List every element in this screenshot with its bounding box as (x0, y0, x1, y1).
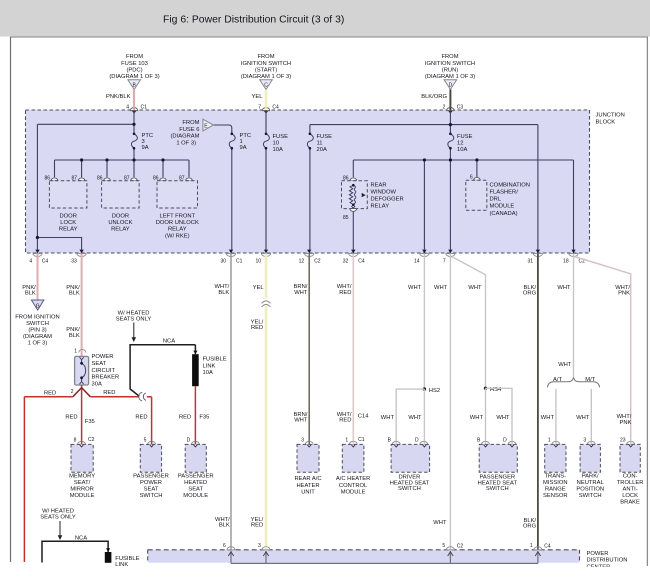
node: bus tap at PNK input (132, 123, 135, 126)
wire RED breaker output junction (24, 385, 151, 562)
wire WHT/PNK diagonal from pin18 to controller anti-lock brake (575, 257, 631, 442)
svg-text:WHT: WHT (408, 415, 422, 421)
svg-text:DEFOGGER: DEFOGGER (371, 197, 404, 203)
module boxes (bottom row) (71, 444, 640, 472)
svg-text:FROM IGNITION: FROM IGNITION (15, 315, 59, 321)
svg-text:SWITCH: SWITCH (398, 486, 421, 492)
svg-text:SWITCH: SWITCH (140, 493, 163, 499)
power distribution center interior wires (231, 551, 538, 563)
svg-text:RED: RED (135, 415, 147, 421)
connector C4 pin 7 (258, 105, 279, 114)
wire WHT/BLK pin30 to power distribution center (230, 254, 232, 550)
svg-text:REAR: REAR (371, 182, 387, 188)
svg-text:(CANADA): (CANADA) (490, 211, 518, 217)
wire: FUSE10 out to pin 10 (265, 148, 267, 249)
label: rear A/C heater unit (294, 476, 321, 495)
wire: drop to pin 14 (423, 160, 425, 250)
wire PNK/BLK pin4 to triangle G (37, 254, 39, 300)
splice HS4 (484, 387, 487, 390)
svg-text:C1: C1 (141, 105, 148, 111)
svg-text:WHT: WHT (470, 415, 484, 421)
svg-text:IGNITION SWITCH: IGNITION SWITCH (425, 61, 475, 67)
svg-text:FUSE: FUSE (317, 134, 333, 140)
svg-text:MODULE: MODULE (183, 493, 208, 499)
svg-text:(DIAGRAM 1 OF 3): (DIAGRAM 1 OF 3) (425, 74, 475, 80)
svg-text:RED: RED (179, 415, 191, 421)
svg-text:IGNITION SWITCH: IGNITION SWITCH (241, 61, 291, 67)
svg-text:C: C (264, 83, 268, 89)
node D label: FROM IGNITION SWITCH (RUN) (425, 54, 475, 80)
label: transmission range sensor (543, 473, 567, 499)
wire HS2 down to pin D driver switch (423, 389, 425, 441)
svg-text:3: 3 (258, 543, 261, 549)
svg-text:(PIN 3): (PIN 3) (28, 328, 46, 334)
svg-text:FROM: FROM (126, 54, 143, 60)
svg-text:20A: 20A (317, 147, 327, 153)
label: passenger power seat switch (133, 473, 169, 499)
splice HS2 (423, 387, 426, 390)
svg-text:8: 8 (74, 438, 77, 444)
off-page triangle E (203, 119, 214, 131)
svg-text:FLASHER/: FLASHER/ (490, 190, 519, 196)
svg-text:NCA: NCA (75, 536, 87, 542)
module: combination flasher/DRL module (466, 180, 530, 217)
svg-text:CONTROL: CONTROL (339, 483, 368, 489)
module box: A/C heater control module (342, 444, 364, 472)
svg-text:5: 5 (144, 438, 147, 444)
fuse FUSE 12 10A (448, 133, 473, 154)
svg-text:C4: C4 (272, 105, 279, 111)
wire: drop to combination module pin 6 (476, 160, 478, 177)
svg-text:POWER: POWER (140, 480, 162, 486)
svg-text:DOOR UNLOCK: DOOR UNLOCK (156, 220, 199, 226)
svg-text:NEUTRAL: NEUTRAL (577, 480, 605, 486)
svg-text:CIRCUIT: CIRCUIT (92, 368, 116, 374)
svg-text:WHT: WHT (408, 285, 422, 291)
svg-text:LOCK: LOCK (622, 493, 638, 499)
svg-text:ORG: ORG (523, 524, 537, 530)
wire PNK/BLK pin33 to circuit breaker (81, 254, 83, 353)
wire HS4 down to pin B passenger switch (485, 388, 487, 441)
node C label: FROM IGNITION SWITCH (START) (241, 54, 291, 80)
svg-text:RED: RED (251, 325, 263, 331)
svg-text:A/T: A/T (553, 377, 562, 383)
svg-text:WINDOW: WINDOW (371, 189, 397, 195)
svg-text:A/C HEATER: A/C HEATER (336, 476, 370, 482)
module box: controller anti-lock brake (620, 444, 640, 472)
svg-text:Fig 6: Power Distribution Circ: Fig 6: Power Distribution Circuit (3 of … (163, 15, 344, 26)
wire: drop relay1 pin 87 (81, 160, 83, 177)
wire: drop to defogger relay 86 (352, 160, 354, 177)
svg-text:BLK: BLK (25, 291, 36, 297)
label: memory seat/mirror module (69, 473, 95, 499)
node: combination module tap (475, 158, 478, 161)
svg-text:RED: RED (44, 391, 56, 397)
wire: drop relay3 pin 86 (162, 160, 164, 177)
svg-text:1: 1 (548, 438, 551, 444)
wire: YEL input to FUSE10 (265, 110, 267, 134)
title bar (0, 0, 650, 37)
svg-text:PNK: PNK (619, 420, 631, 426)
svg-text:C4: C4 (358, 259, 365, 265)
svg-text:C4: C4 (42, 259, 49, 265)
svg-text:2: 2 (443, 105, 446, 111)
wire: right bus y=124.6 (310, 124, 538, 126)
svg-text:WHT: WHT (557, 285, 571, 291)
node B label: FROM FUSE 103 (109, 54, 159, 80)
svg-text:MEMORY: MEMORY (69, 473, 95, 479)
svg-text:WHT: WHT (576, 415, 590, 421)
svg-text:3: 3 (583, 438, 586, 444)
A/T M/T split brace (547, 377, 599, 387)
wire YEL pin10 to power distribution center (265, 254, 268, 550)
svg-text:2: 2 (71, 389, 74, 395)
wire HS2 branch to pin B driver switch (396, 389, 424, 441)
label: driver heated seat switch (390, 475, 430, 493)
svg-text:YEL: YEL (252, 94, 264, 100)
label: A/C heater control module (336, 476, 370, 495)
svg-text:HEATED: HEATED (184, 480, 207, 486)
svg-text:RANGE: RANGE (545, 487, 566, 493)
svg-text:1: 1 (74, 349, 77, 355)
power distribution center pin arcs (227, 547, 542, 550)
svg-text:10A: 10A (273, 147, 283, 153)
wire: FUSE11 out to pin 12 (309, 148, 311, 249)
relay R3 box: left front door unlock relay (157, 181, 198, 208)
svg-text:FROM: FROM (182, 120, 199, 126)
svg-text:JUNCTION: JUNCTION (596, 113, 625, 119)
svg-text:RED: RED (103, 390, 115, 396)
svg-text:DISTRIBUTION: DISTRIBUTION (587, 558, 628, 564)
pin labels 86/87 relays (44, 175, 472, 221)
svg-text:POWER: POWER (587, 551, 609, 557)
svg-text:31: 31 (528, 259, 534, 265)
svg-text:BLOCK: BLOCK (596, 119, 616, 125)
wire: FUSE12 out to pin 7 (449, 148, 451, 249)
svg-text:3: 3 (301, 438, 304, 444)
page right border (646, 37, 648, 566)
svg-text:FUSE: FUSE (273, 134, 289, 140)
svg-text:B: B (388, 438, 392, 444)
junction block bottom pin labels (29, 259, 585, 265)
svg-text:WHT: WHT (496, 415, 510, 421)
fuse PTC1 9A (229, 133, 251, 152)
relay R1 label (59, 213, 78, 232)
svg-text:C2: C2 (457, 543, 464, 549)
svg-text:RED: RED (339, 290, 351, 296)
svg-text:W/ HEATED: W/ HEATED (118, 310, 150, 316)
svg-text:WHT: WHT (433, 520, 447, 526)
wire: drop relay1 pin 86 (54, 160, 56, 177)
svg-text:G: G (36, 304, 40, 310)
svg-text:SEAT: SEAT (92, 361, 107, 367)
svg-text:FUSE: FUSE (457, 134, 473, 140)
svg-text:1: 1 (345, 438, 348, 444)
svg-text:SWITCH: SWITCH (486, 486, 509, 492)
wire YEL from triangle C (265, 90, 268, 111)
svg-text:C3: C3 (457, 105, 464, 111)
svg-text:10A: 10A (203, 370, 213, 376)
svg-text:FUSE 6: FUSE 6 (179, 127, 199, 133)
wire NCA (black) upper (130, 345, 195, 396)
svg-text:SEAT: SEAT (188, 487, 203, 493)
svg-text:LOCK: LOCK (60, 220, 76, 226)
wire WHT/RED pin32 to A/C heater control module (352, 254, 354, 442)
svg-text:TROLLER: TROLLER (617, 480, 644, 486)
splice break symbol on YEL wire (261, 299, 271, 307)
wire stubs through module pin arcs (82, 441, 631, 444)
svg-text:12: 12 (457, 141, 463, 147)
wire: left leg down (36, 124, 38, 237)
connector C3 pin 2 (443, 105, 464, 114)
svg-text:SEAT: SEAT (144, 487, 159, 493)
svg-text:HEATER: HEATER (296, 483, 319, 489)
svg-text:D: D (449, 83, 453, 89)
svg-text:4: 4 (126, 105, 129, 111)
module box pin arcs (bottom row) (78, 441, 635, 444)
wire HS4 branch to pin D passenger switch (486, 388, 513, 441)
svg-text:12: 12 (299, 259, 305, 265)
svg-text:1 OF 3): 1 OF 3) (28, 341, 48, 347)
wire stubs through PDC pin arcs (231, 547, 538, 550)
annotation arrow (133, 323, 135, 339)
wire: triangle E to PTC1 (213, 125, 231, 134)
power distribution center pin arrows (228, 552, 540, 556)
circuit breaker CB: power seat circuit breaker 30A (71, 349, 120, 395)
svg-text:FUSIBLE: FUSIBLE (115, 556, 139, 562)
svg-text:TRANS-: TRANS- (545, 473, 567, 479)
svg-text:5: 5 (442, 543, 445, 549)
svg-text:23: 23 (620, 438, 626, 444)
svg-text:RELAY: RELAY (371, 204, 390, 210)
svg-text:(DIAGRAM 1 OF 3): (DIAGRAM 1 OF 3) (109, 74, 159, 80)
node: BLK/ORG input on right bus (449, 123, 452, 126)
svg-text:D: D (187, 438, 191, 444)
svg-text:FUSIBLE: FUSIBLE (203, 357, 227, 363)
svg-text:32: 32 (343, 259, 349, 265)
svg-text:(DIAGRAM: (DIAGRAM (171, 134, 200, 140)
svg-text:DOOR: DOOR (112, 213, 129, 219)
fusible link FL1 10A (192, 345, 227, 386)
svg-text:9A: 9A (240, 145, 247, 151)
wire: fused bus y=160 (353, 159, 573, 161)
svg-text:(W/ RKE): (W/ RKE) (165, 233, 190, 239)
label: park/neutral position switch (576, 473, 604, 499)
svg-text:WHT: WHT (294, 290, 308, 296)
inline connector symbol (139, 392, 146, 401)
module box: passenger heated seat module (185, 444, 206, 472)
svg-text:MISSION: MISSION (543, 480, 567, 486)
svg-text:10: 10 (255, 259, 261, 265)
svg-text:C1: C1 (236, 259, 243, 265)
relay K1: rear window defogger relay (342, 181, 404, 212)
svg-text:86: 86 (44, 175, 50, 181)
fuse FUSE 11 20A (307, 133, 332, 154)
wire: bus corner down to pin 18 (573, 160, 575, 250)
svg-text:C2: C2 (88, 437, 95, 443)
svg-text:RELAY: RELAY (111, 227, 130, 233)
wire WHT to park/neutral position switch (590, 389, 592, 442)
svg-text:(DIAGRAM: (DIAGRAM (23, 334, 52, 340)
wire WHT to transmission range sensor (555, 389, 557, 442)
svg-text:M/T: M/T (585, 377, 595, 383)
svg-text:D: D (415, 438, 419, 444)
wire RED fusible link to passenger heated seat module (194, 386, 196, 441)
module box: memory seat/mirror module (71, 444, 93, 472)
wire: bus corner down to pin 31 (537, 125, 539, 250)
svg-text:W/ HEATED: W/ HEATED (42, 509, 74, 515)
wire WHT pin14 to HS2 (423, 254, 425, 390)
svg-text:MODULE: MODULE (341, 489, 366, 495)
svg-text:B: B (477, 438, 481, 444)
relay pin arcs row (51, 177, 480, 180)
wire PNK/BLK from triangle B (133, 90, 135, 111)
svg-text:FUSE 103: FUSE 103 (121, 61, 148, 67)
svg-text:C2: C2 (314, 259, 321, 265)
svg-text:18: 18 (563, 259, 569, 265)
svg-text:F35: F35 (85, 419, 95, 425)
page top border (10, 36, 648, 38)
svg-text:POSITION: POSITION (576, 487, 604, 493)
wire WHT pin7 to power distribution center (449, 254, 451, 550)
wire NCA (black) lower (42, 541, 108, 562)
svg-text:WHT: WHT (558, 362, 572, 368)
module box: passenger power seat switch (140, 444, 161, 472)
wire: relay feed bus y=160 (55, 159, 190, 161)
relay pin V marks (53, 181, 479, 184)
svg-text:REAR A/C: REAR A/C (294, 476, 321, 482)
relay R2 label (108, 213, 132, 232)
node: FUSE12 out on fused bus (449, 158, 452, 161)
wire: PTC3 out to relay bus (133, 148, 135, 160)
svg-text:SEATS ONLY: SEATS ONLY (40, 515, 76, 521)
junction block (26, 110, 590, 253)
module box: transmission range sensor (545, 444, 566, 472)
node: left leg split (36, 236, 39, 239)
svg-text:BRAKE: BRAKE (620, 500, 640, 506)
svg-text:C4: C4 (544, 543, 551, 549)
svg-text:F35: F35 (199, 415, 209, 421)
wire BLK/ORG pin31 to power distribution center (537, 254, 539, 550)
connector C1 pin 4 (126, 105, 147, 114)
wire branch diagonal pin7 to HS4 (452, 257, 486, 389)
svg-text:SWITCH: SWITCH (579, 493, 602, 499)
label: controller anti-lock brake (617, 473, 644, 505)
svg-text:BLK/ORG: BLK/ORG (421, 94, 447, 100)
relay R2 box: door unlock relay (102, 181, 140, 208)
label: passenger heated seat switch (478, 475, 518, 493)
wire BLK/ORG from triangle D (449, 90, 451, 111)
svg-text:YEL: YEL (253, 285, 265, 291)
svg-text:ANTI-: ANTI- (623, 487, 638, 493)
svg-text:BLK: BLK (218, 290, 229, 296)
wire: drop relay2 pin 87 (133, 160, 135, 177)
off-page triangle G (31, 300, 44, 310)
wire: down to pin 4 C4 (36, 238, 38, 250)
junction block bottom edge pin arrows (35, 250, 575, 254)
svg-text:(RUN): (RUN) (442, 68, 458, 74)
wire BRN/WHT pin12 to rear A/C heater unit (308, 254, 310, 442)
svg-text:11: 11 (317, 141, 323, 147)
relay contact arrow (362, 193, 366, 197)
wire: PTC1 out to pin 30 (231, 148, 233, 249)
svg-text:SEATS ONLY: SEATS ONLY (116, 317, 152, 323)
svg-text:COMBINATION: COMBINATION (490, 182, 530, 188)
module box: driver heated seat switch (391, 444, 430, 472)
svg-text:9A: 9A (142, 145, 149, 151)
node E label: FROM FUSE 6 (171, 120, 200, 146)
svg-text:WHT: WHT (434, 285, 448, 291)
svg-text:C14: C14 (358, 414, 369, 420)
annotation arrow (lower) (59, 521, 61, 536)
wire: drop relay3 pin 87 (188, 160, 190, 177)
svg-text:WHT: WHT (541, 415, 555, 421)
module box: rear A/C heater unit (297, 444, 319, 472)
svg-text:6: 6 (223, 543, 226, 549)
svg-text:SEAT/: SEAT/ (74, 480, 91, 486)
svg-text:LINK: LINK (203, 363, 216, 369)
svg-text:SENSOR: SENSOR (543, 493, 567, 499)
svg-text:30A: 30A (92, 381, 102, 387)
svg-text:BLK: BLK (69, 291, 80, 297)
pin arc bottom (350, 209, 357, 212)
svg-text:SWITCH: SWITCH (26, 321, 49, 327)
wire: split to pin 33 (37, 238, 81, 250)
svg-text:POWER: POWER (92, 354, 114, 360)
svg-text:33: 33 (71, 259, 77, 265)
svg-text:BREAKER: BREAKER (92, 375, 120, 381)
node: pin 14 tap (423, 158, 426, 161)
svg-text:1: 1 (530, 543, 533, 549)
svg-text:BLK: BLK (219, 523, 230, 529)
svg-text:10: 10 (273, 141, 279, 147)
relay R3 label (156, 213, 199, 239)
svg-text:RED: RED (65, 415, 77, 421)
power distribution center box (148, 550, 580, 563)
svg-text:PNK/BLK: PNK/BLK (106, 94, 131, 100)
annotation: W/ HEATED SEATS ONLY (upper) (116, 310, 152, 322)
svg-text:PASSENGER: PASSENGER (133, 473, 169, 479)
svg-text:RELAY: RELAY (168, 227, 187, 233)
wire: BLK/ORG input through FUSE12 (449, 110, 451, 134)
svg-text:MIRROR: MIRROR (70, 487, 94, 493)
annotation: W/ HEATED SEATS ONLY (lower) (40, 509, 76, 521)
wire: drop relay2 pin 86 (106, 160, 108, 177)
svg-text:30: 30 (220, 259, 226, 265)
svg-text:MODULE: MODULE (490, 204, 515, 210)
svg-text:LEFT FRONT: LEFT FRONT (159, 213, 195, 219)
node: relay bus taps (80, 158, 83, 161)
svg-text:HS2: HS2 (429, 388, 440, 394)
svg-text:PNK: PNK (618, 291, 630, 297)
svg-text:(PDC): (PDC) (126, 68, 142, 74)
relay coil loop: resistor + coil (352, 181, 354, 185)
svg-text:WHT: WHT (381, 415, 395, 421)
svg-text:D: D (503, 438, 507, 444)
svg-text:85: 85 (343, 215, 349, 221)
module box: passenger heated seat switch (479, 444, 517, 472)
svg-text:7: 7 (258, 105, 261, 111)
wire: defogger relay 85 down to pin 32 (352, 209, 354, 250)
svg-text:1 OF 3): 1 OF 3) (176, 140, 196, 146)
svg-text:PASSENGER: PASSENGER (178, 473, 214, 479)
svg-text:14: 14 (414, 259, 420, 265)
svg-text:7: 7 (443, 259, 446, 265)
svg-text:CON-: CON- (623, 473, 638, 479)
wire WHT pin18 down to A/T-M/T split (573, 254, 575, 378)
svg-text:FROM: FROM (441, 54, 458, 60)
svg-text:10A: 10A (457, 147, 467, 153)
